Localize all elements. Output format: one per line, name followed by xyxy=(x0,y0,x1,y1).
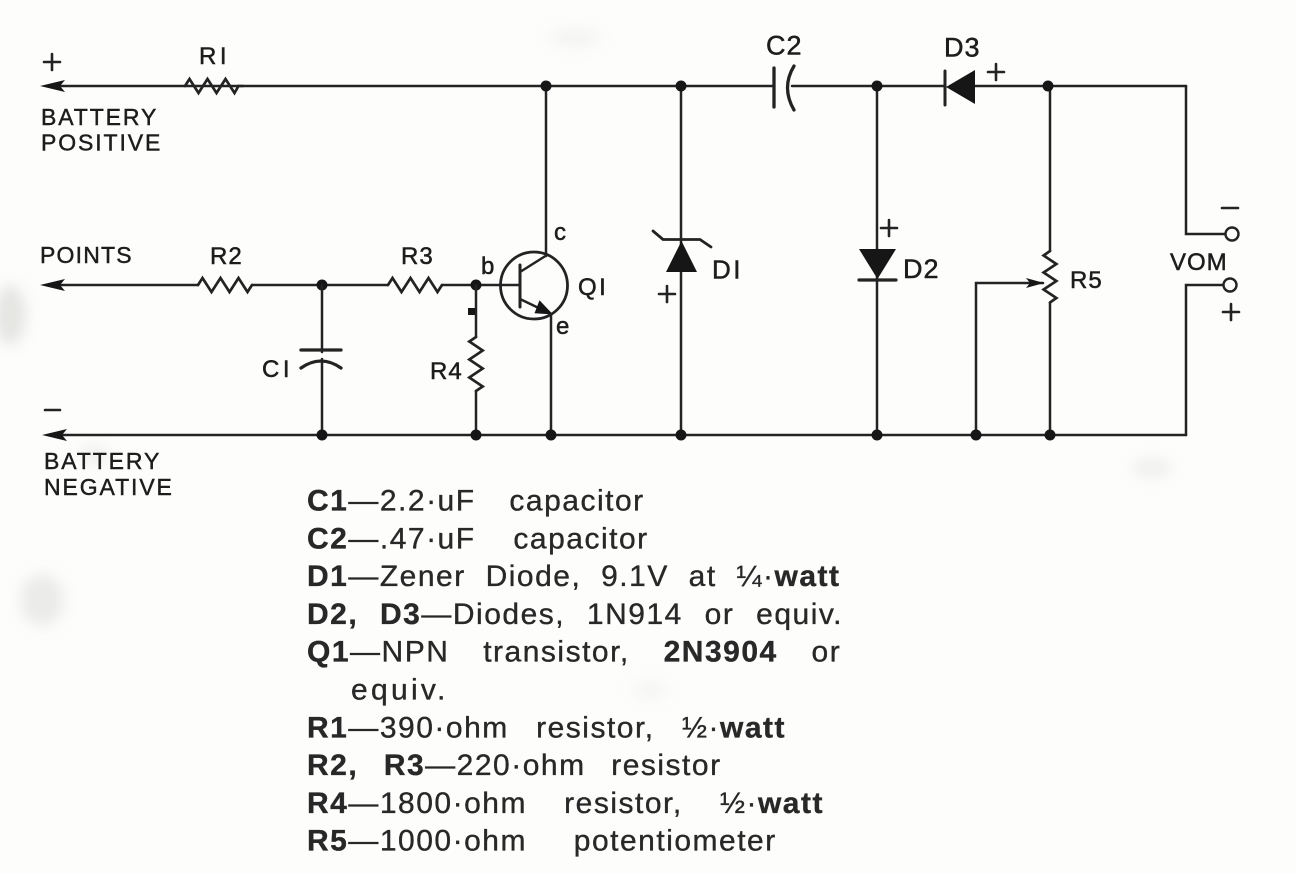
wire D1 branch xyxy=(680,86,683,435)
svg-text:VOM: VOM xyxy=(1170,249,1228,276)
plus sign D1 xyxy=(659,286,675,302)
potentiometer R5 xyxy=(1044,86,1057,435)
svg-text:D3: D3 xyxy=(944,33,981,63)
node D2 top junction xyxy=(872,81,883,92)
resistor R1 xyxy=(185,79,239,93)
blob on R4 wire xyxy=(468,308,475,315)
svg-text:BATTERY: BATTERY xyxy=(41,104,158,130)
wire collector riser xyxy=(545,86,548,256)
node base junction xyxy=(471,280,482,291)
node C1 bottom junction xyxy=(317,430,328,441)
svg-text:POSITIVE: POSITIVE xyxy=(41,130,162,156)
node C1 top junction xyxy=(317,280,328,291)
svg-text:Q1—NPN transistor, 2N3904 or: Q1—NPN transistor, 2N3904 or xyxy=(307,636,841,669)
terminal VOM positive xyxy=(1224,279,1237,292)
wire top rail (battery positive) xyxy=(58,85,1186,88)
svg-text:C2: C2 xyxy=(766,31,803,61)
node R5 bottom junction xyxy=(1045,430,1056,441)
wiper wire R5 xyxy=(976,278,1044,435)
svg-text:C1—2.2·uF capacitor: C1—2.2·uF capacitor xyxy=(307,485,645,518)
plus sign D3 xyxy=(988,64,1004,80)
svg-text:C2—.47·uF capacitor: C2—.47·uF capacitor xyxy=(307,522,649,555)
node D1 top junction xyxy=(676,81,687,92)
node emitter bottom junction xyxy=(546,430,557,441)
svg-text:c: c xyxy=(554,219,567,246)
wire mid rail (points) xyxy=(58,284,520,287)
diode D3 xyxy=(945,70,975,105)
svg-text:D2, D3—Diodes, 1N914 or equiv.: D2, D3—Diodes, 1N914 or equiv. xyxy=(307,598,843,631)
capacitor C2 xyxy=(774,66,794,110)
wire VOM positive lead xyxy=(1186,285,1223,435)
transistor Q1 xyxy=(501,252,568,319)
svg-text:CI: CI xyxy=(262,356,291,383)
terminal VOM negative xyxy=(1226,228,1239,241)
arrow points lead xyxy=(40,279,65,291)
node collector top junction xyxy=(541,81,552,92)
svg-text:NEGATIVE: NEGATIVE xyxy=(44,474,174,500)
node D2 bottom junction xyxy=(872,430,883,441)
svg-text:R5—1000·ohm potentiometer: R5—1000·ohm potentiometer xyxy=(307,825,777,858)
plus sign VOM xyxy=(1223,304,1239,320)
resistor R4 xyxy=(469,285,482,435)
node R5 top junction xyxy=(1043,81,1054,92)
svg-text:D1—Zener Diode, 9.1V at ¼·watt: D1—Zener Diode, 9.1V at ¼·watt xyxy=(307,560,841,593)
plus sign D2 xyxy=(881,220,897,236)
plus sign battery positive xyxy=(44,54,60,70)
svg-text:BATTERY: BATTERY xyxy=(44,448,161,474)
node D1 bottom junction xyxy=(676,430,687,441)
svg-text:b: b xyxy=(481,253,495,280)
capacitor C1 xyxy=(301,285,341,435)
minus sign battery negative xyxy=(45,409,60,412)
svg-text:R2, R3—220·ohm resistor: R2, R3—220·ohm resistor xyxy=(307,749,722,782)
svg-text:R4: R4 xyxy=(430,358,463,385)
svg-text:QI: QI xyxy=(578,274,607,301)
node R4 bottom junction xyxy=(471,430,482,441)
zener diode D1 xyxy=(653,231,711,272)
svg-text:equiv.: equiv. xyxy=(351,674,449,707)
svg-text:RI: RI xyxy=(199,43,228,70)
svg-text:R2: R2 xyxy=(210,243,243,270)
svg-text:R5: R5 xyxy=(1070,267,1103,294)
resistor R3 xyxy=(388,278,442,292)
resistor R2 xyxy=(198,278,252,292)
svg-text:e: e xyxy=(556,313,570,340)
svg-text:POINTS: POINTS xyxy=(40,242,133,268)
arrow battery positive lead xyxy=(40,80,65,92)
wire D2 branch xyxy=(876,86,879,435)
svg-text:D2: D2 xyxy=(903,254,940,284)
svg-text:R1—390·ohm resistor, ½·watt: R1—390·ohm resistor, ½·watt xyxy=(307,711,786,744)
arrow battery negative lead xyxy=(42,429,67,441)
wire emitter drop xyxy=(550,314,553,435)
minus sign VOM xyxy=(1222,207,1238,210)
wire VOM negative lead xyxy=(1186,86,1225,234)
svg-text:R4—1800·ohm resistor, ½·watt: R4—1800·ohm resistor, ½·watt xyxy=(307,787,824,820)
node wiper bottom junction xyxy=(971,430,982,441)
diode D2 xyxy=(859,249,896,280)
svg-text:DI: DI xyxy=(712,255,742,285)
svg-text:R3: R3 xyxy=(401,243,434,270)
wire bottom rail (battery negative) xyxy=(58,434,1186,437)
